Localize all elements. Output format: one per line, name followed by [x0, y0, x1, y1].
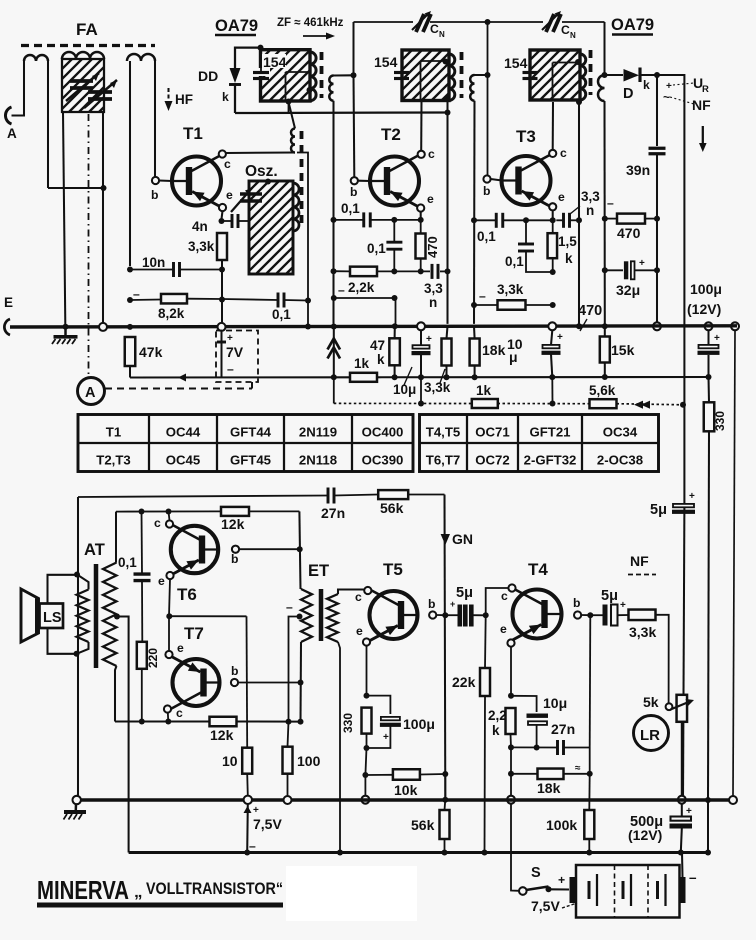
wire speaker bottom: [48, 628, 77, 654]
wire x421 to AGC rail: [420, 377, 422, 403]
resistor 1,5k: [548, 233, 558, 258]
capacitor IF1 (inside left): [250, 68, 270, 76]
node 377 x421: [418, 374, 424, 380]
resistor 12k (T7): [210, 717, 237, 727]
svg-text:≈: ≈: [575, 763, 581, 774]
svg-text:+: +: [253, 805, 259, 816]
svg-text:n: n: [586, 203, 594, 218]
svg-text:T1: T1: [183, 124, 203, 143]
IF transformer IF2 box: [352, 50, 503, 101]
svg-text:k: k: [377, 352, 385, 367]
node 18k right: [587, 771, 593, 777]
wire T2 collector up to IF2: [420, 101, 422, 151]
AGC dotted rail y403: [334, 402, 472, 404]
terminal c of T4: [508, 584, 515, 591]
wire T4 b right: [581, 614, 590, 616]
capacitor 0,1 T3 input: [495, 213, 498, 228]
node bus x130: [127, 324, 133, 330]
wire GN corner down: [443, 495, 446, 799]
svg-text:GFT21: GFT21: [529, 425, 570, 440]
wire 100u leads: [707, 330, 709, 345]
svg-text:OC45: OC45: [166, 453, 200, 468]
svg-text:12k: 12k: [210, 727, 234, 743]
title underline: [37, 903, 283, 908]
wire ET secondary top hook to T5 c: [338, 590, 365, 595]
GN arrow head: [441, 534, 450, 545]
resistor 47k (T1 bias): [125, 337, 136, 366]
wire 100k to battery rail: [588, 839, 590, 853]
wire AT secondary bottom to rail corner: [115, 666, 117, 722]
svg-text:470: 470: [617, 225, 641, 241]
resistor 22k: [480, 668, 490, 696]
svg-text:Osz.: Osz.: [245, 163, 278, 180]
svg-text:470: 470: [425, 236, 440, 258]
wire T3 base vertical x487: [487, 22, 489, 175]
node IF1 tap: [307, 87, 313, 93]
wire 5u to T4 c corner: [447, 614, 458, 616]
FA shield dashed line top: [21, 44, 155, 47]
svg-text:b: b: [231, 664, 238, 678]
wire 500u to battery rail: [681, 829, 682, 853]
wire battery minus to rail: [681, 853, 684, 878]
node AGC line end at x447: [445, 110, 451, 116]
battery left terminal bar: [570, 877, 577, 903]
terminal b of T2: [351, 177, 358, 184]
svg-text:+: +: [620, 600, 626, 611]
IF1 winding bumps right edge: [310, 52, 316, 101]
wire CN line right corner down: [603, 22, 605, 75]
wire 22k down to battery rail: [484, 696, 487, 853]
resistor 10k: [393, 769, 420, 780]
CN neutralization line top: [354, 21, 414, 23]
svg-text:470: 470: [578, 303, 602, 319]
earth input symbol: [4, 319, 10, 335]
wire 3,3n to x579: [556, 219, 563, 221]
wire 32u line: [605, 269, 623, 271]
svg-text:T5: T5: [383, 560, 403, 579]
IF3 dashed core: [589, 50, 593, 95]
node x421 AGC: [418, 401, 424, 407]
node 330/100u join: [364, 745, 370, 751]
node 22k battery rail: [482, 850, 488, 856]
svg-text:AT: AT: [84, 541, 105, 559]
svg-text:0,1: 0,1: [118, 555, 137, 570]
wire IF2 cap leads: [401, 50, 403, 73]
transistor T3: [502, 156, 551, 205]
svg-text:FA: FA: [76, 20, 98, 39]
svg-text:0,1: 0,1: [367, 241, 386, 256]
svg-text:b: b: [151, 188, 158, 202]
label 154 (IF1): [262, 54, 286, 68]
resistor 470 (detector): [617, 214, 645, 224]
svg-text:OC400: OC400: [362, 425, 404, 440]
terminal circle x365 rail: [361, 796, 369, 804]
wire 10u T4 bottom: [536, 725, 538, 748]
svg-text:–: –: [227, 362, 234, 376]
terminal circle x733 rail: [729, 796, 737, 804]
terminal b of T3: [483, 175, 490, 182]
terminal e of T4: [507, 639, 514, 646]
electrolytic 100u: [699, 345, 719, 348]
wire 0,1 AT leads: [141, 512, 144, 575]
svg-text:22k: 22k: [452, 674, 476, 690]
svg-text:39n: 39n: [626, 162, 650, 178]
node x579 bus: [576, 323, 582, 329]
leader 7,5V battery: [562, 903, 577, 908]
svg-text:100μ: 100μ: [690, 281, 722, 297]
svg-text:–: –: [479, 289, 486, 303]
svg-text:–: –: [286, 600, 293, 614]
AT secondary winding: [103, 563, 117, 667]
node x308 on 8.2k line: [305, 298, 311, 304]
IF2 dashed core: [460, 52, 464, 98]
svg-text:+: +: [714, 333, 720, 344]
node 0,1 line top: [139, 509, 145, 515]
svg-text:R: R: [702, 84, 709, 95]
capacitor 10n: [172, 262, 175, 277]
capacitor 4n: [231, 214, 234, 228]
svg-text:OC44: OC44: [166, 425, 201, 440]
FA secondary coil: [127, 54, 155, 61]
oscillator transformer hatched box: [156, 181, 389, 274]
node oscillator box top: [265, 179, 271, 185]
node 377 x474.6: [472, 374, 478, 380]
dashed box 7V battery: [216, 331, 258, 383]
wire x708 rail to battery rail: [707, 800, 709, 853]
IF2 secondary coil: [470, 75, 474, 101]
wire e-column tap line to 10 ohm corner: [169, 615, 246, 617]
dotted leader NF: [670, 97, 694, 104]
switch S circle: [519, 887, 527, 895]
node T2 bias mid: [391, 217, 397, 223]
svg-text:(12V): (12V): [628, 827, 662, 843]
wire AT primary top hook: [77, 575, 89, 590]
node 8.2k line at x222: [219, 297, 225, 303]
wire 1,5k leads: [552, 220, 554, 233]
svg-text:4n: 4n: [192, 219, 208, 234]
wire 18k leads: [473, 326, 476, 338]
wire IF1 sec bottom node: [331, 217, 337, 223]
AT primary winding (speaker side): [77, 590, 89, 643]
resistor 12k (T6): [221, 507, 249, 516]
wire speaker top: [48, 575, 78, 604]
wire T2 emitter down: [420, 212, 422, 220]
terminal b of T4: [574, 611, 581, 618]
svg-text:–: –: [689, 870, 697, 885]
node IF1 bottom / osc coil: [286, 99, 292, 105]
terminal circle x552 on bus: [548, 322, 556, 330]
wire x682 below rail to 500u: [681, 804, 683, 816]
resistor 100k: [584, 810, 594, 839]
battery box: [576, 865, 680, 918]
IF transformer IF3 box: [480, 50, 640, 100]
wire 0,1 vert leads: [393, 220, 395, 242]
wire switch to battery: [549, 888, 570, 890]
svg-text:3,3k: 3,3k: [188, 239, 215, 254]
wire coil1 to box-bottom junction: [48, 187, 103, 189]
resistor 1k (AGC): [472, 399, 498, 408]
FA main coil bumps: [62, 52, 104, 59]
svg-text:–: –: [607, 196, 614, 210]
svg-text:0,1: 0,1: [477, 229, 496, 244]
capacitor 0,1 (osc line): [277, 293, 280, 308]
IF1 dashed core: [320, 52, 324, 98]
node detector output: [654, 72, 660, 78]
antenna A input symbol: [5, 107, 11, 124]
wire 0,1 to T2 emitter node: [334, 219, 364, 221]
wire x334 below bus: [333, 327, 335, 378]
node 2,2k bottom: [508, 744, 514, 750]
svg-text:56k: 56k: [380, 500, 404, 516]
node IF2 tap: [443, 59, 449, 65]
terminal circle x657 on bus: [653, 322, 661, 330]
wire 47k x394 leads: [394, 326, 396, 338]
svg-text:7,5V: 7,5V: [253, 816, 282, 832]
electrolytic 500u: [671, 817, 692, 821]
transistor T1: [172, 157, 221, 206]
node 32u left: [602, 267, 608, 273]
FA main tuned coil (hatched box): [9, 59, 162, 112]
wire IF1 secondary bottom down: [332, 101, 334, 220]
svg-text:27n: 27n: [551, 721, 575, 737]
svg-text:b: b: [573, 596, 580, 610]
node 500u battery rail: [678, 850, 684, 856]
wire 10 ohm to rail: [246, 774, 249, 796]
transistor T7: [173, 659, 220, 706]
transistor type table: [78, 415, 659, 472]
svg-text:+: +: [558, 873, 565, 887]
svg-text:+: +: [686, 806, 692, 817]
svg-text:7,5V: 7,5V: [531, 898, 560, 914]
capacitor 5u on x683: [673, 504, 694, 507]
wire T4 e down: [510, 647, 512, 696]
svg-text:NF: NF: [692, 97, 711, 113]
wire T6 b to ET: [239, 548, 299, 550]
terminal e of T5: [363, 638, 370, 645]
svg-text:e: e: [427, 192, 434, 206]
svg-text:3,3k: 3,3k: [629, 624, 656, 640]
svg-text:T3: T3: [516, 127, 536, 146]
wire 2,2k line: [334, 270, 351, 272]
svg-text:S: S: [531, 865, 541, 881]
svg-text:μ: μ: [509, 349, 518, 365]
svg-text:T2: T2: [381, 125, 401, 144]
capacitor 5u (T5 input): [458, 605, 473, 626]
terminal b of T7: [231, 679, 238, 686]
svg-text:ZF ≈ 461kHz: ZF ≈ 461kHz: [277, 17, 344, 29]
node x708 battery rail end: [705, 850, 711, 856]
svg-text:T4: T4: [528, 560, 548, 579]
resistor 18k (x474): [470, 339, 480, 366]
wire T5 e to 100u corner: [367, 696, 391, 714]
wire FA box bottom to junction: [102, 112, 104, 188]
node AT tap: [114, 614, 120, 620]
wire x590 to 18k node: [589, 748, 591, 774]
node T7 base on ET lead: [298, 680, 304, 686]
HF arrow: [167, 88, 169, 106]
wire 22k from T4 c node: [484, 615, 487, 668]
wire x222 column down to bus: [221, 266, 223, 324]
left arrow marks on 377 rail: [178, 374, 186, 382]
node T5 e net: [364, 693, 370, 699]
wire T3 base: [491, 179, 502, 181]
node 3,3n right at x447: [445, 268, 451, 274]
node speaker top: [74, 572, 80, 578]
node 377 x446.5: [444, 374, 450, 380]
node IF2 bottom-right corner: [444, 96, 450, 102]
wire 3,3k line: [474, 304, 498, 306]
node x605 bus: [602, 323, 608, 329]
svg-text:D: D: [623, 86, 633, 102]
svg-text:k: k: [565, 251, 573, 266]
node T4 collector net: [483, 612, 489, 618]
node junction at FA bottom: [101, 185, 107, 191]
terminal b of T5: [429, 611, 436, 618]
capacitor 3,3n: [431, 264, 434, 279]
terminal b of T6: [232, 546, 239, 553]
svg-text:c: c: [560, 146, 567, 160]
dashed line A circle to 7V box: [105, 387, 252, 389]
svg-text:b: b: [350, 185, 357, 199]
resistor 330 (right): [704, 402, 715, 431]
trimmer capacitor CN1: [416, 14, 431, 32]
arrow NF down: [702, 126, 704, 146]
svg-text:n: n: [429, 295, 437, 310]
scan white patch: [286, 866, 417, 921]
node 100k battery rail: [586, 850, 592, 856]
wire IF3 secondary bottom down to bus: [603, 101, 605, 324]
rail y721 (T7 collector rail): [115, 720, 210, 722]
svg-text:330: 330: [341, 713, 355, 733]
svg-text:+: +: [227, 333, 233, 344]
node 2,2k at x394: [391, 268, 397, 274]
wire T3 emitter down: [552, 210, 554, 220]
IF2 winding bumps: [449, 54, 455, 100]
wire FA box left edge down to chassis ground: [63, 112, 65, 324]
svg-text:2-GFT32: 2-GFT32: [524, 453, 577, 468]
svg-text:GN: GN: [452, 531, 473, 547]
battery right terminal bar: [680, 877, 686, 903]
svg-text:3,3: 3,3: [581, 189, 600, 204]
battery cells: [588, 881, 591, 899]
wire GN down to rail: [444, 774, 446, 798]
IF transformer IF1 box: [209, 50, 370, 101]
wire T3 collector up to IF3: [552, 102, 554, 150]
svg-text:330: 330: [713, 411, 727, 431]
svg-text:c: c: [154, 516, 161, 530]
svg-text:GFT44: GFT44: [230, 425, 272, 440]
terminal circle x708 on bus: [705, 322, 713, 330]
wire ET primary bottom to rail: [299, 642, 302, 722]
wire FA coil1 right leg: [47, 61, 49, 188]
wire 2,2k bottom to节点: [510, 734, 513, 747]
potentiometer 5k: [677, 695, 688, 722]
svg-text:27n: 27n: [321, 505, 345, 521]
arrow ZF: [303, 35, 331, 37]
wire 3,3k x446 leads: [447, 326, 448, 338]
node IF3 tap: [575, 59, 581, 65]
wire IF1 sec line continues to bus: [332, 220, 334, 324]
node 377 x394: [392, 374, 398, 380]
svg-text:47k: 47k: [139, 344, 163, 360]
node 470 right x657: [654, 216, 660, 222]
svg-text:b: b: [428, 597, 435, 611]
switch S node: [546, 886, 552, 892]
wire FA secondary right leg to T1 base: [154, 61, 156, 177]
supply rail y377: [130, 376, 350, 378]
svg-text:3,3k: 3,3k: [424, 380, 451, 395]
ground symbol below x77: [75, 804, 78, 810]
svg-text:c: c: [176, 706, 183, 720]
wire DD cathode down to AGC line: [234, 85, 236, 114]
node 10n line left: [127, 267, 133, 273]
svg-text:e: e: [177, 641, 184, 655]
svg-text:100μ: 100μ: [403, 716, 435, 732]
svg-text:0,1: 0,1: [341, 201, 360, 216]
capacitor 27n (T4): [556, 740, 559, 755]
node e-column at AT tap line: [166, 613, 172, 619]
svg-text:VOLLTRANSISTOR“: VOLLTRANSISTOR“: [146, 879, 283, 898]
resistor 470 (T2 emitter): [416, 234, 426, 259]
svg-text:5μ: 5μ: [456, 585, 473, 601]
electrolytic 10u (T4): [527, 714, 549, 718]
node AGC at x683: [680, 402, 686, 408]
svg-text:0,1: 0,1: [272, 307, 291, 322]
svg-text:c: c: [501, 589, 508, 603]
wire 27n/56k line y495: [78, 496, 328, 498]
diode D: [624, 69, 640, 82]
svg-text:2,2k: 2,2k: [348, 280, 375, 295]
resistor 3,3k (NF out): [629, 610, 656, 621]
node 8.2k line left: [127, 297, 133, 303]
wire x657 to bus: [656, 219, 658, 322]
terminal circle x421 on bus: [417, 322, 425, 330]
wire x590 below to 100k: [588, 774, 590, 810]
wire IF3 secondary top to diode: [605, 74, 624, 76]
resistor 18k (T4): [538, 769, 564, 780]
capacitor 0,1 (AT): [134, 572, 151, 575]
resistor 56k (GN bias): [440, 810, 450, 839]
wire osc coil top to IF1 bottom node: [289, 104, 295, 129]
wire T5 b to GN line: [436, 614, 445, 616]
svg-text:e: e: [226, 188, 233, 202]
capacitor IF3: [523, 71, 538, 74]
svg-text:GFT45: GFT45: [230, 453, 271, 468]
wire 100 leads: [288, 722, 289, 747]
node ET primary tap: [297, 614, 303, 620]
resistor 220: [137, 642, 147, 669]
wire 15k leads: [604, 326, 606, 336]
wire AT primary bottom hook: [77, 642, 89, 654]
svg-text:ET: ET: [308, 562, 329, 580]
node x708 at rail: [705, 797, 711, 803]
wire ET tap stub to 100ohm column: [289, 617, 300, 722]
svg-text:N: N: [570, 31, 576, 40]
wire T7 b to ET bottom lead: [238, 682, 300, 684]
resistor 8,2k: [161, 294, 187, 304]
wire e-column to T7 e: [168, 616, 170, 651]
electrolytic 10u (x421): [413, 345, 430, 348]
svg-text:C: C: [430, 22, 439, 36]
battery 7,5V left lead: [246, 804, 249, 853]
svg-text:C: C: [561, 23, 570, 37]
svg-text:OC390: OC390: [362, 453, 404, 468]
wire diode to UR node: [640, 74, 657, 76]
svg-text:18k: 18k: [482, 342, 506, 358]
svg-text:47: 47: [370, 338, 385, 353]
terminal circle x287.5 rail: [284, 796, 292, 804]
svg-text:NF: NF: [630, 553, 649, 569]
